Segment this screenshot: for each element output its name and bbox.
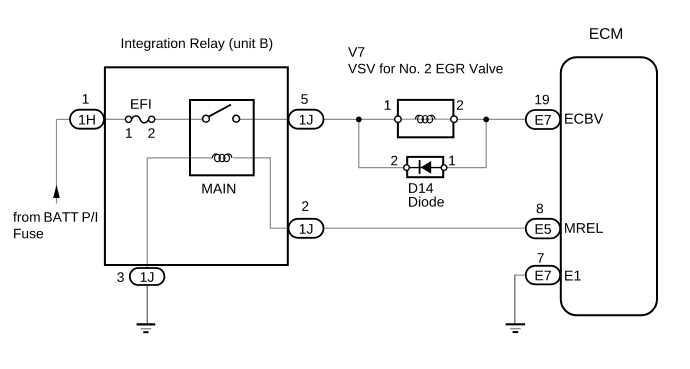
label: ECM [590,28,622,39]
label: Diode [409,197,444,207]
label: Integration Relay (unit B) [122,38,272,51]
label: MREL [565,223,603,233]
pin 2 label (diode) [391,156,397,166]
connector 1H pin 1 [70,110,104,129]
pin 2 label (EFI) [148,128,154,138]
pin 5 label (1J) [301,94,308,104]
junction: VSV left node [356,117,362,123]
label: from BATT P/I Fuse [13,212,97,222]
pin 3 label (1J) [117,272,124,282]
ground (ECM E1) [506,324,525,332]
wire: BATT feed horizontal to 1H [57,118,71,120]
label: V7 [348,47,364,57]
diode D14 symbol [406,160,445,174]
fuse EFI [125,116,154,123]
ECM box [561,57,657,315]
label: D14 [409,183,433,193]
pin 2 label (VSV) [457,100,463,110]
wire: VSV terminal 2 to ECM E7 pin 19 [457,118,526,120]
connector 1J pin 5 [289,110,324,129]
pin 7 label (E7) [538,253,544,262]
pin 19 label (E7) [535,95,549,105]
relay MAIN box [190,100,254,175]
pin 1 label (1H) [83,94,89,104]
wire: 1J pin 5 to VSV terminal 1 [324,118,395,120]
pin 2 label (1J) [302,201,308,211]
connector E7 pin 7 [526,266,560,285]
arrow: from BATT (pointing up) [53,185,60,198]
diode terminal 2 (left) [404,165,410,171]
label: MAIN [202,184,235,194]
Integration Relay box (unit B) [105,67,288,265]
wire: relay switch to 1J pin 5 [240,118,289,120]
wire: fuse to relay switch [155,118,203,120]
wire: relay coil right to 1J pin 2 [234,158,289,228]
connector E5 pin 8 [526,219,560,239]
wire: 1J pin 3 to ground [146,285,148,323]
relay switch contact [203,105,240,123]
label: EFI [131,99,150,109]
connector 1J pin 3 [130,268,165,285]
relay coil MAIN [212,154,232,162]
wire: E7 pin 7 ground drop [514,275,516,323]
wire: VSV left branch down to diode [359,119,403,167]
VSV terminal 1 [395,116,402,123]
VSV coil [415,115,435,123]
diode terminal 1 (right) [441,165,447,171]
wire: E7 pin 7 to ground (horizontal) [514,274,526,276]
pin 1 label (VSV) [385,100,391,110]
label: E1 [565,271,581,281]
pin 1 label (diode) [449,156,455,166]
label: VSV for No. 2 EGR Valve [348,63,503,73]
connector 1J pin 2 [289,219,324,238]
junction: VSV right node [483,117,489,123]
pin 8 label (E5) [537,204,543,214]
VSV V7 box [398,100,454,137]
connector E7 pin 19 [526,110,560,129]
wire: VSV right branch down to diode [447,119,486,167]
ground (below relay) [137,324,156,332]
wire: relay ground leg vertical [146,158,148,269]
pin 1 label (EFI) [126,128,132,138]
diode D14 box [407,157,443,177]
VSV terminal 2 [451,116,458,123]
wire: relay coil left to ground leg [147,157,212,159]
wire: VSV internal (terminal 1 to terminal 2) [398,118,454,120]
wire: EFI row (box edge to fuse) [105,118,126,120]
wire: BATT feed vertical drop [56,119,58,203]
label: ECBV [565,114,603,124]
wire: 1J pin 2 to ECM E5 (MREL) [324,227,526,229]
